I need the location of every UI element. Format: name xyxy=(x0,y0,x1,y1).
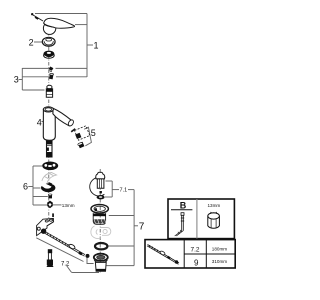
svg-text:7.2: 7.2 xyxy=(191,246,200,253)
svg-text:310mm: 310mm xyxy=(212,259,227,264)
svg-text:7: 7 xyxy=(139,222,145,233)
svg-text:2: 2 xyxy=(29,38,34,48)
svg-text:1: 1 xyxy=(94,41,99,51)
svg-text:13mm: 13mm xyxy=(62,203,75,208)
svg-text:4: 4 xyxy=(37,117,42,127)
svg-text:3: 3 xyxy=(14,75,19,85)
svg-text:6: 6 xyxy=(23,182,28,192)
svg-text:7.2: 7.2 xyxy=(61,262,70,268)
svg-text:B: B xyxy=(180,200,187,210)
svg-text:7.1: 7.1 xyxy=(120,188,128,194)
svg-text:9: 9 xyxy=(194,258,199,267)
svg-text:5: 5 xyxy=(91,128,96,138)
svg-text:13mm: 13mm xyxy=(208,203,221,208)
svg-text:180mm: 180mm xyxy=(212,247,227,252)
